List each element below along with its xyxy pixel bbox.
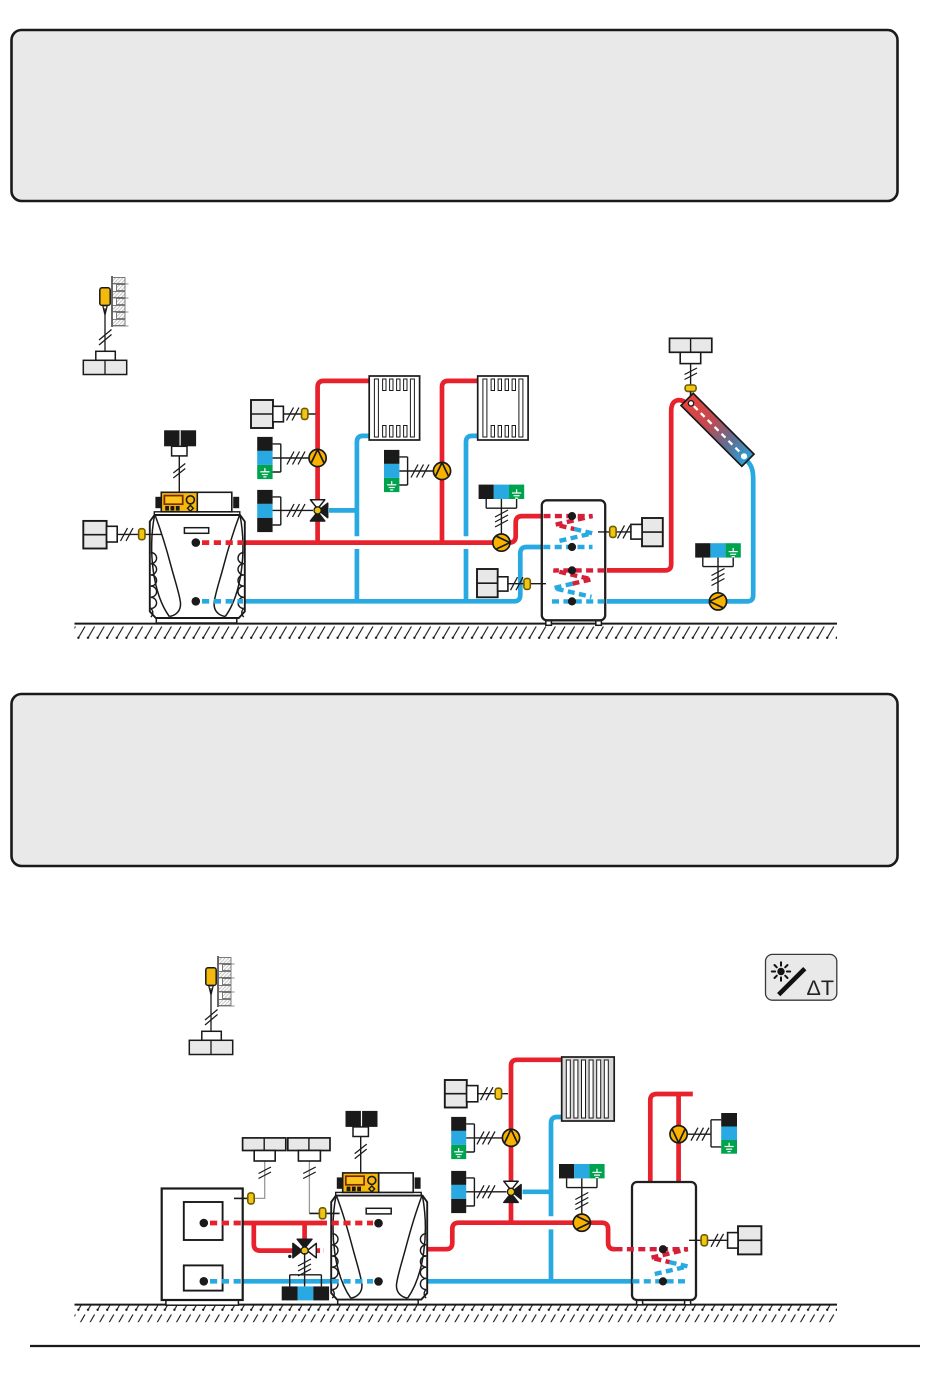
room thermostat box (diagram 2) [445,1080,508,1108]
wire: blue return main right segment [427,1279,632,1284]
wire: red dashed into boiler 2 [320,1221,373,1226]
boiler 2 body with control unit [331,1111,427,1304]
node: boiler 2 return connection [374,1277,383,1286]
sensor module stack (pump P2 control) [384,450,434,492]
footer rule [30,1345,920,1347]
node: solid-fuel boiler flow connection [200,1219,209,1228]
sensor box A (solid fuel boiler temperature) [234,1138,286,1204]
pump P3 (DHW loading) [493,534,510,551]
DHW setpoint box (left of tank 1) [477,569,546,597]
outdoor temperature sensor (diagram 2) [189,956,234,1055]
3-way mixing valve V1 [310,500,327,521]
sensor module stack (valve V3 control) [282,1275,329,1301]
sensor module stack (pump P6 control) [559,1164,605,1214]
heat exchanger coil (tank 1 bottom, solar side) [552,570,605,601]
wire: blue return main [244,547,542,601]
sensor module stack (pump P7 control) [687,1113,737,1154]
node: tank 2 flow in [659,1245,667,1253]
svg-text:ΔT: ΔT [807,976,835,1000]
sensor module stack (solar pump P4 control) [695,543,741,592]
pump P7 (DHW circulation) [670,1126,687,1143]
DHW temperature sensor box (right of tank 2) [689,1226,761,1254]
node: boiler 2 flow connection [374,1219,383,1228]
sensor module stack (pump P3 control) [479,485,525,534]
sensor module stack (pump P1 control) [257,437,309,479]
wire: red riser heating circuit (diagram 2) [511,1060,562,1223]
pump P4 (solar circuit) [709,593,726,610]
wire: blue return radiator 2 [466,436,478,601]
sensor box B (boiler 2 sensor) [288,1138,340,1219]
note box top [12,30,898,201]
ground (diagram 2) [75,1305,838,1323]
pump P2 (heating circuit 2) [433,462,450,479]
pump P6 (DHW loading, diagram 2) [573,1214,590,1231]
wire: red DHW circulation loop [650,1094,693,1182]
wire: red main boiler 2 to DHW tank 2 [427,1223,616,1250]
wire: red dashed valve V3 outlet stub [315,1248,323,1253]
flue/boiler sensor box (left of boiler 1) [83,521,162,549]
note box middle [12,694,898,866]
pump P1 (heating circuit 1) [309,449,326,466]
wire: blue return radiator 1 [357,436,369,601]
DHW temperature sensor box (right of tank 1) [598,518,663,546]
wire: red branch down to valve V3 top port [302,1223,307,1239]
wire: blue dashed solid-fuel boiler return tap [210,1279,242,1284]
outdoor temperature sensor (diagram 1) [83,276,128,375]
wire: blue branch to mixing valve [329,508,357,513]
wire: blue dashed into boiler 2 [320,1279,373,1284]
heat exchanger coil (tank 1 top, boiler side) [543,516,592,547]
wire: red riser heating circuit 2 [442,381,478,543]
3-way mixing valve V2 [504,1181,521,1202]
solar delta-T function icon [766,954,837,1000]
node: tank 1 flow in [568,512,576,520]
sensor module stack (valve V2 control) [451,1171,506,1213]
wire: blue return main left segment [243,1279,332,1284]
DHW storage tank 2 [632,1182,696,1305]
wire: red dashed solid-fuel boiler flow tap [210,1221,242,1226]
node: solid-fuel boiler return connection [200,1277,209,1286]
wire: red riser heating circuit 1 [318,381,370,543]
node: boiler 1 return connection [192,597,201,606]
node: tank 1 solar in [568,566,576,574]
DHW storage tank 1 [542,500,605,625]
boiler 1 body with control unit [150,430,245,623]
radiator (diagram 2) [562,1057,615,1121]
node: tank 1 flow out [568,543,576,551]
node: tank 1 solar out [568,597,576,605]
wire: blue dashed boiler 1 return tap [202,599,243,604]
node: boiler 1 flow connection [192,538,201,547]
sensor module stack (valve V1 control) [257,490,313,532]
wire: blue solar return pipe [607,460,753,602]
3-way mixing valve V3 (solid fuel return lift) [288,1239,316,1286]
wire: red dashed boiler 1 flow tap [202,540,243,545]
wire: red supply main (boiler to DHW tank) [244,516,542,543]
wire: red main solid-fuel boiler flow [243,1221,322,1226]
pump P5 (heating circuit, diagram 2) [502,1129,519,1146]
room thermostat box (circuit 1) [251,400,316,428]
solid fuel boiler [162,1189,243,1306]
radiator HK1 [369,376,419,440]
sensor module stack (pump P5 control) [451,1117,502,1159]
wire: blue return radiator (diagram 2) [551,1117,562,1281]
wire: red branch down to valve V3 left port [254,1223,294,1251]
ground (diagram 1) [75,624,838,642]
wire: blue branch to mixing valve V2 [523,1189,552,1194]
wire: red solar flow pipe [607,400,689,570]
heat exchanger coil (tank 2) [616,1249,688,1281]
node: tank 2 return out [659,1277,667,1285]
solar collector sensor box [670,338,712,402]
solar collector panel [681,393,754,466]
radiator HK2 [478,376,528,440]
